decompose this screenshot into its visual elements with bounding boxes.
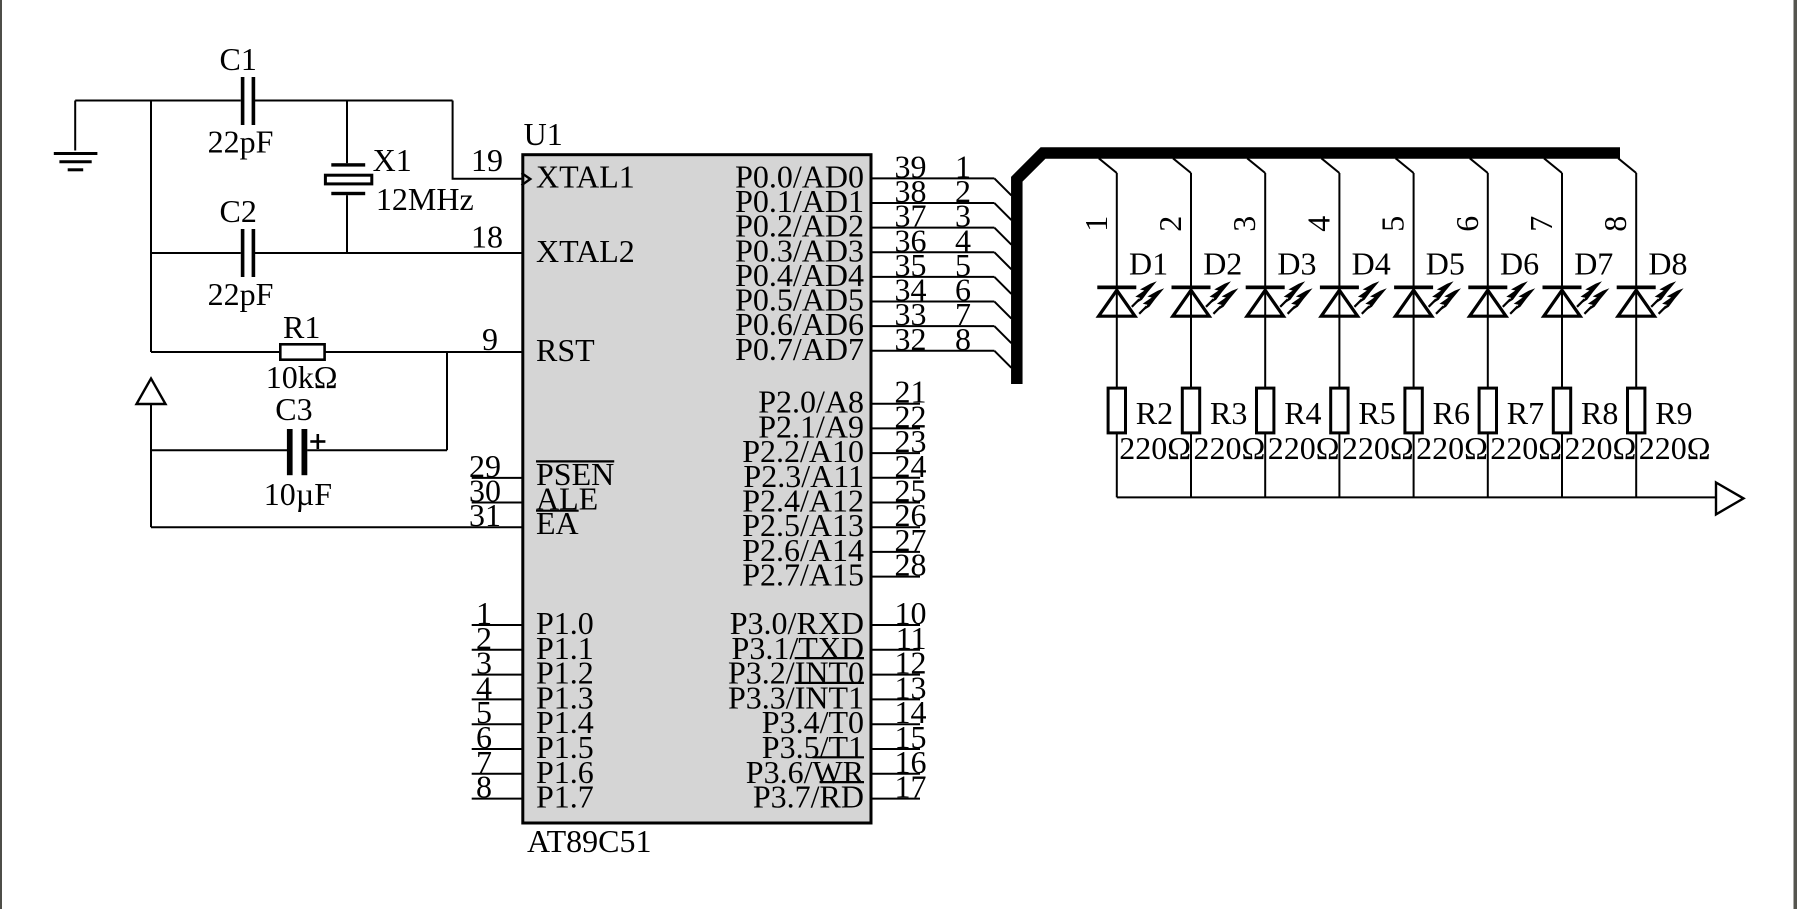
bus entry diagonal P0.7 [994, 351, 1011, 368]
wire P3.3 stub pin 13 [871, 698, 920, 700]
resistor R9 [1628, 388, 1645, 433]
LED D4 triangle [1321, 290, 1357, 316]
wire P3.5 stub pin 15 [871, 748, 920, 750]
wire P1.2 stub pin 3 [472, 674, 523, 676]
wire P1.7 stub pin 8 [472, 798, 523, 800]
LED D5 triangle [1395, 290, 1431, 316]
svg-text:R5: R5 [1358, 395, 1395, 431]
svg-text:28: 28 [895, 547, 927, 583]
svg-text:R9: R9 [1655, 395, 1692, 431]
bus exit diagonal column 7 [1544, 158, 1562, 173]
wire P0.3 pin 36 [871, 251, 994, 253]
wire crystal bottom [346, 195, 348, 253]
wire vertical junction x151 [150, 101, 152, 353]
LED D4 cathode bar [1320, 286, 1359, 290]
svg-text:RST: RST [536, 332, 595, 368]
IC U1 AT89C51 body [523, 155, 871, 823]
svg-text:R4: R4 [1284, 395, 1321, 431]
svg-text:D3: D3 [1277, 246, 1316, 282]
clock chevron XTAL1 [522, 173, 531, 185]
svg-text:220Ω: 220Ω [1416, 430, 1488, 466]
svg-text:D6: D6 [1500, 246, 1539, 282]
LED D6 emission arrows [1506, 281, 1535, 310]
svg-text:P2.7/A15: P2.7/A15 [742, 557, 864, 593]
bus P0 thick line [1017, 153, 1620, 384]
wire P3.4 stub pin 14 [871, 723, 920, 725]
wire top rail left of C1 [75, 100, 241, 102]
svg-text:R2: R2 [1136, 395, 1173, 431]
svg-text:220Ω: 220Ω [1342, 430, 1414, 466]
wire P2.3 stub pin 24 [871, 477, 920, 479]
svg-text:2: 2 [1152, 216, 1188, 232]
resistor R1 [280, 344, 324, 359]
LED D7 triangle [1544, 290, 1580, 316]
svg-text:17: 17 [895, 769, 927, 805]
wire P0.6 pin 33 [871, 325, 994, 327]
svg-text:R8: R8 [1581, 395, 1618, 431]
wire P2.5 stub pin 26 [871, 526, 920, 528]
svg-text:R6: R6 [1433, 395, 1470, 431]
bus exit diagonal column 5 [1396, 158, 1414, 173]
wire P3.6 stub pin 16 [871, 773, 920, 775]
LED D3 emission arrows [1284, 281, 1313, 310]
resistor R5 [1331, 388, 1348, 433]
bus entry diagonal P0.3 [994, 252, 1011, 269]
svg-text:18: 18 [471, 219, 503, 255]
svg-text:220Ω: 220Ω [1119, 430, 1191, 466]
svg-text:XTAL2: XTAL2 [536, 233, 635, 269]
bus entry diagonal P0.6 [994, 326, 1011, 343]
wire LED column 3 [1264, 173, 1266, 497]
page left border [0, 0, 2, 909]
wire top rail right of C1 [255, 100, 453, 102]
bus exit diagonal column 1 [1099, 158, 1117, 173]
wire P1.4 stub pin 5 [472, 723, 523, 725]
LED D8 emission arrows [1655, 281, 1684, 310]
svg-text:10kΩ: 10kΩ [266, 359, 338, 395]
svg-text:6: 6 [1449, 216, 1485, 232]
bus exit diagonal column 4 [1321, 158, 1339, 173]
LED D2 cathode bar [1172, 286, 1211, 290]
bus entry diagonal P0.5 [994, 302, 1011, 319]
page right border [1794, 0, 1797, 909]
bus entry diagonal P0.0 [994, 178, 1011, 195]
wire LED column 8 [1635, 173, 1637, 497]
wire LED column 4 [1338, 173, 1340, 497]
LED D8 triangle [1618, 290, 1654, 316]
svg-text:U1: U1 [524, 116, 563, 152]
wire P0.4 pin 35 [871, 276, 994, 278]
wire C3 right [307, 449, 447, 451]
svg-text:P0.7/AD7: P0.7/AD7 [735, 331, 864, 367]
wire VCC down [150, 404, 152, 527]
wire LED column 1 [1116, 173, 1118, 497]
LED D2 triangle [1173, 290, 1209, 316]
crystal X1 [325, 163, 371, 195]
wire P3.1 stub pin 11 [871, 649, 920, 651]
svg-text:220Ω: 220Ω [1639, 430, 1711, 466]
svg-text:220Ω: 220Ω [1268, 430, 1340, 466]
capacitor C2 [241, 229, 255, 277]
wire crystal top [346, 101, 348, 164]
LED D1 emission arrows [1135, 281, 1164, 310]
resistor R6 [1405, 388, 1422, 433]
LED D6 cathode bar [1468, 286, 1507, 290]
wire P0.7 pin 32 [871, 350, 994, 352]
svg-text:X1: X1 [373, 142, 412, 178]
LED D5 emission arrows [1432, 281, 1461, 310]
svg-text:P3.7/RD: P3.7/RD [753, 779, 864, 815]
wire LED column 5 [1413, 173, 1415, 497]
wire LED column 6 [1487, 173, 1489, 497]
svg-text:D7: D7 [1574, 246, 1613, 282]
wire P2.6 stub pin 27 [871, 551, 920, 553]
svg-text:P1.7: P1.7 [536, 779, 594, 815]
wire LED column 2 [1190, 173, 1192, 497]
svg-text:31: 31 [469, 497, 501, 533]
svg-text:C1: C1 [220, 41, 257, 77]
wire XTAL2 left of C2 [151, 252, 241, 254]
wire XTAL1 pin19 [453, 101, 523, 179]
LED D1 cathode bar [1097, 286, 1136, 290]
bus entry diagonal P0.1 [994, 203, 1011, 220]
wire P2.0 stub pin 21 [871, 403, 920, 405]
wire PSEN stub [472, 477, 523, 479]
svg-text:8: 8 [1597, 216, 1633, 232]
LED D1 triangle [1099, 290, 1135, 316]
LED D7 cathode bar [1543, 286, 1582, 290]
svg-text:8: 8 [955, 321, 971, 357]
wire P0.5 pin 34 [871, 301, 994, 303]
svg-text:3: 3 [1226, 216, 1262, 232]
svg-text:19: 19 [471, 142, 503, 178]
bus exit diagonal column 2 [1173, 158, 1191, 173]
svg-text:1: 1 [1078, 216, 1114, 232]
wire C3 left [151, 449, 287, 451]
LED D8 cathode bar [1617, 286, 1656, 290]
wire P2.4 stub pin 25 [871, 502, 920, 504]
svg-text:220Ω: 220Ω [1490, 430, 1562, 466]
svg-text:C2: C2 [220, 193, 257, 229]
wire ALE stub [472, 502, 523, 504]
svg-text:4: 4 [1300, 216, 1336, 232]
power arrow VCC [137, 379, 166, 405]
wire P3.0 stub pin 10 [871, 624, 920, 626]
resistor R8 [1553, 388, 1570, 433]
wire P1.0 stub pin 1 [472, 624, 523, 626]
wire RST to C3 riser [446, 352, 448, 450]
svg-text:R3: R3 [1210, 395, 1247, 431]
wire P1.5 stub pin 6 [472, 748, 523, 750]
bus exit diagonal column 6 [1470, 158, 1488, 173]
svg-text:7: 7 [1523, 216, 1559, 232]
wire P1.3 stub pin 4 [472, 698, 523, 700]
wire P1.6 stub pin 7 [472, 773, 523, 775]
wire P2.2 stub pin 23 [871, 452, 920, 454]
LED D3 triangle [1247, 290, 1283, 316]
svg-text:AT89C51: AT89C51 [527, 823, 651, 859]
svg-text:220Ω: 220Ω [1194, 430, 1266, 466]
resistor R7 [1479, 388, 1496, 433]
wire P1.1 stub pin 2 [472, 649, 523, 651]
LED D6 triangle [1470, 290, 1506, 316]
LED D4 emission arrows [1358, 281, 1387, 310]
wire P3.7 stub pin 17 [871, 798, 920, 800]
wire P0.1 pin 38 [871, 202, 994, 204]
resistor R3 [1182, 388, 1199, 433]
wire RST row [151, 351, 523, 353]
bus exit diagonal column 3 [1247, 158, 1265, 173]
wire bottom rail [1117, 496, 1716, 498]
ground [54, 101, 98, 170]
bus entry diagonal P0.2 [994, 228, 1011, 245]
LED D2 emission arrows [1210, 281, 1239, 310]
LED D7 emission arrows [1581, 281, 1610, 310]
wire P2.7 stub pin 28 [871, 576, 920, 578]
plus sign C3 [310, 434, 325, 449]
capacitor C1 [241, 77, 255, 125]
svg-text:9: 9 [482, 321, 498, 357]
svg-text:D5: D5 [1426, 246, 1465, 282]
svg-text:8: 8 [476, 769, 492, 805]
arrow head bottom rail [1716, 483, 1744, 515]
wire EA row [151, 526, 523, 528]
svg-text:D4: D4 [1352, 246, 1391, 282]
svg-text:22pF: 22pF [208, 276, 274, 312]
wire P0.0 pin 39 [871, 177, 994, 179]
svg-text:5: 5 [1375, 216, 1411, 232]
resistor R2 [1108, 388, 1125, 433]
svg-text:12MHz: 12MHz [376, 181, 474, 217]
svg-text:D2: D2 [1203, 246, 1242, 282]
resistor R4 [1257, 388, 1274, 433]
svg-text:220Ω: 220Ω [1565, 430, 1637, 466]
LED D5 cathode bar [1394, 286, 1433, 290]
svg-text:10µF: 10µF [264, 476, 332, 512]
wire XTAL2 right of C2 [255, 252, 523, 254]
svg-text:R7: R7 [1507, 395, 1544, 431]
wire P0.2 pin 37 [871, 227, 994, 229]
svg-text:XTAL1: XTAL1 [536, 159, 635, 195]
bus exit diagonal column 8 [1618, 158, 1636, 173]
capacitor C3 [287, 429, 307, 475]
svg-text:32: 32 [895, 321, 927, 357]
svg-text:D1: D1 [1129, 246, 1168, 282]
LED D3 cathode bar [1246, 286, 1285, 290]
svg-text:C3: C3 [275, 391, 312, 427]
wire LED column 7 [1561, 173, 1563, 497]
bus entry diagonal P0.4 [994, 277, 1011, 294]
svg-text:R1: R1 [283, 309, 320, 345]
svg-text:D8: D8 [1648, 246, 1687, 282]
svg-text:22pF: 22pF [208, 124, 274, 160]
wire P2.1 stub pin 22 [871, 427, 920, 429]
wire P3.2 stub pin 12 [871, 674, 920, 676]
